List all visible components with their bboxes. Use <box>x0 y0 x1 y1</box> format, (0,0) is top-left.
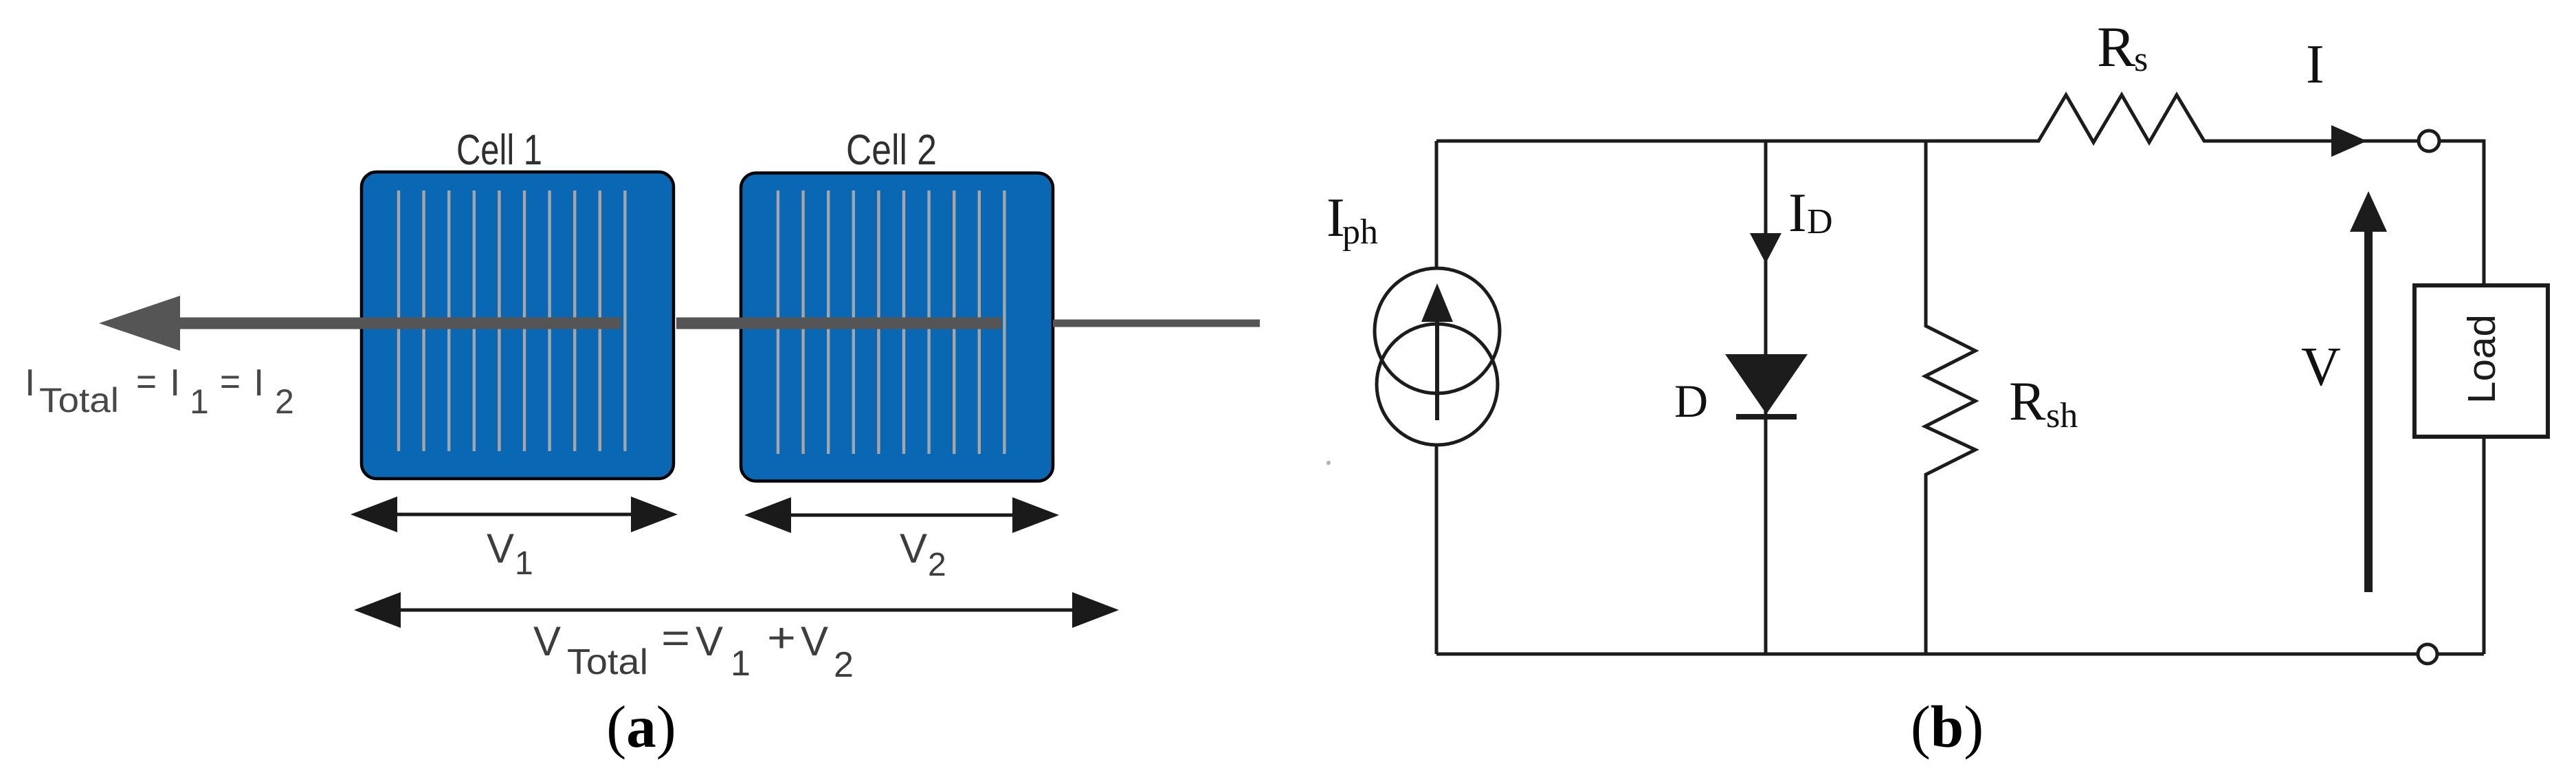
svg-text:1: 1 <box>190 382 209 421</box>
svg-text:1: 1 <box>731 644 751 684</box>
svg-text:I: I <box>25 361 35 404</box>
svg-text:Cell 1: Cell 1 <box>456 127 542 174</box>
svg-text:Cell 2: Cell 2 <box>846 127 937 174</box>
svg-text:2: 2 <box>275 382 294 421</box>
svg-text:I: I <box>170 361 180 404</box>
svg-text:1: 1 <box>515 545 533 582</box>
svg-text:Load: Load <box>2460 314 2504 404</box>
svg-text:V: V <box>2301 337 2341 398</box>
svg-text:2: 2 <box>928 547 946 583</box>
svg-text:V: V <box>801 618 828 664</box>
svg-text:I: I <box>1788 183 1807 243</box>
svg-text:2: 2 <box>834 645 854 685</box>
svg-text:V: V <box>696 618 723 664</box>
svg-text:+: + <box>767 615 796 661</box>
svg-text:D: D <box>1807 202 1833 241</box>
svg-text:Total: Total <box>567 642 648 682</box>
svg-text:ph: ph <box>1342 213 1378 252</box>
svg-text:=: = <box>220 360 241 402</box>
svg-text:R: R <box>2009 371 2046 432</box>
svg-text:I: I <box>254 361 264 404</box>
svg-text:(b): (b) <box>1911 693 1984 760</box>
svg-text:Total: Total <box>39 381 119 420</box>
svg-text:V: V <box>900 525 927 571</box>
svg-text:=: = <box>136 360 157 402</box>
svg-text:(a): (a) <box>606 693 676 760</box>
svg-text:V: V <box>487 525 514 571</box>
svg-text:=: = <box>661 615 690 661</box>
svg-text:sh: sh <box>2046 396 2078 435</box>
svg-text:D: D <box>1674 375 1708 427</box>
svg-text:I: I <box>2306 34 2324 95</box>
svg-text:V: V <box>533 618 561 664</box>
svg-text:R: R <box>2097 15 2135 79</box>
svg-text:s: s <box>2134 40 2148 79</box>
